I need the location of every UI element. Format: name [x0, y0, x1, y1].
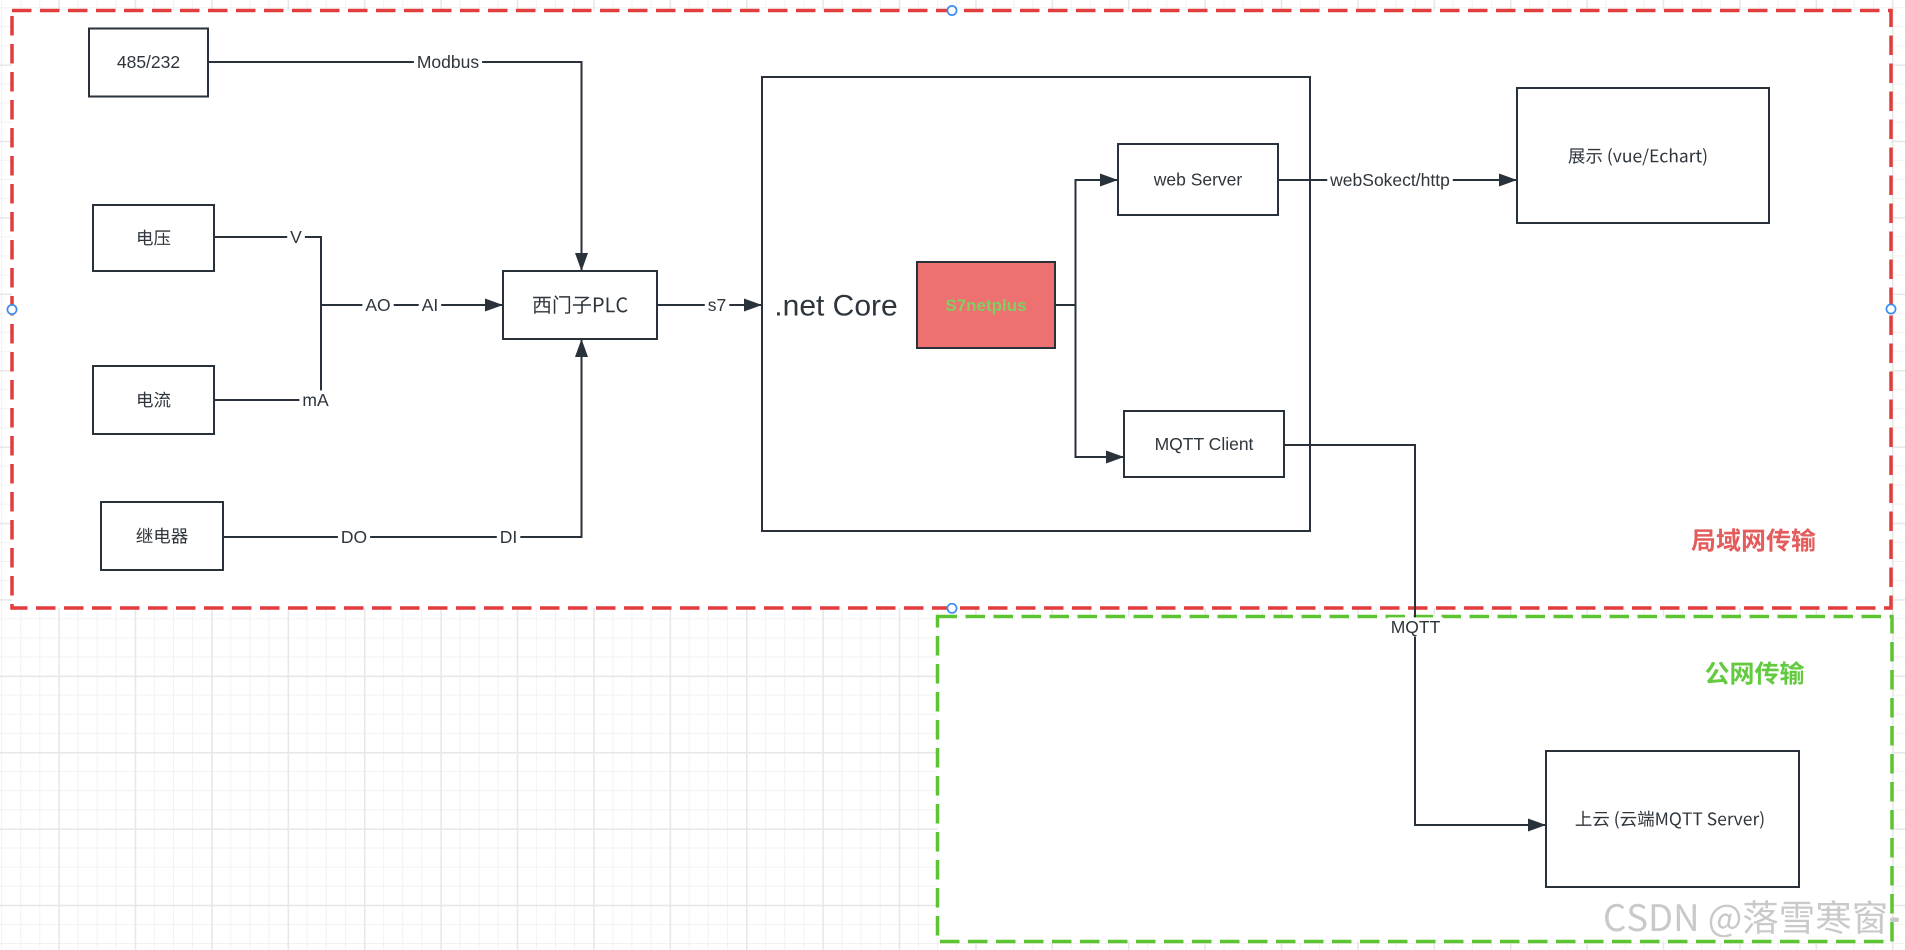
svg-text:V: V — [290, 227, 302, 247]
svg-text:mA: mA — [302, 390, 329, 410]
svg-text:MQTT Client: MQTT Client — [1155, 434, 1254, 454]
svg-text:s7: s7 — [708, 295, 726, 315]
svg-text:S7netplus: S7netplus — [945, 296, 1026, 315]
svg-text:DO: DO — [341, 527, 367, 547]
svg-text:AO: AO — [365, 295, 390, 315]
svg-text:Modbus: Modbus — [417, 52, 480, 72]
svg-text:.net Core: .net Core — [774, 290, 897, 323]
svg-text:web Server: web Server — [1153, 170, 1243, 190]
svg-text:485/232: 485/232 — [117, 52, 180, 72]
svg-text:DI: DI — [500, 527, 518, 547]
svg-text:MQTT: MQTT — [1391, 617, 1441, 637]
svg-text:AI: AI — [422, 295, 439, 315]
svg-text:webSokect/http: webSokect/http — [1329, 170, 1450, 190]
